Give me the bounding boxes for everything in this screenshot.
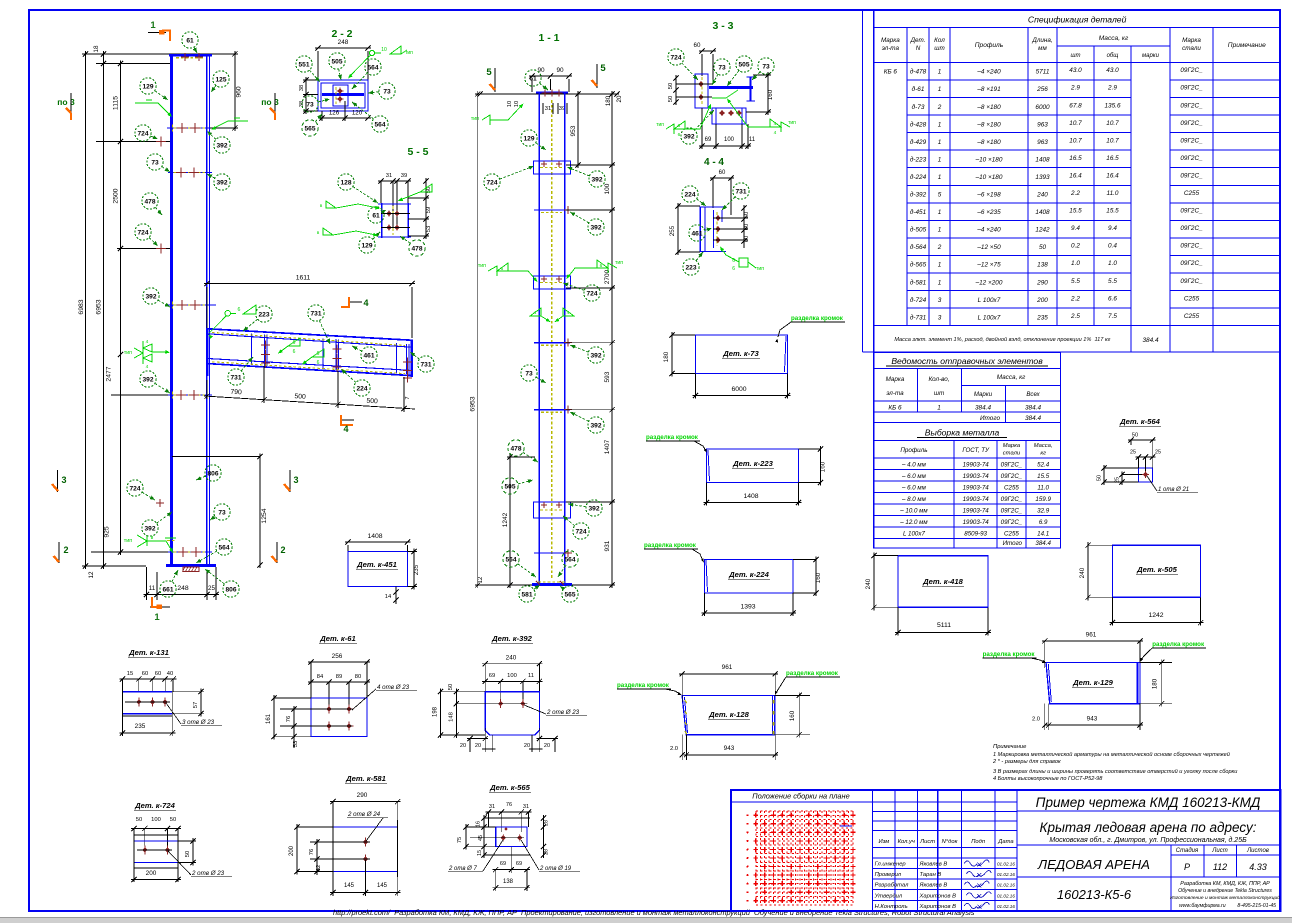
callout 73 bbox=[162, 167, 170, 172]
svg-text:2 отв Ø 24: 2 отв Ø 24 bbox=[347, 811, 381, 818]
svg-text:160: 160 bbox=[820, 461, 827, 472]
svg-text:–12 ×200: –12 ×200 bbox=[975, 279, 1003, 286]
svg-text:76: 76 bbox=[506, 802, 512, 808]
svg-text:129: 129 bbox=[361, 242, 372, 249]
section mark 5 left bbox=[494, 68, 496, 92]
svg-text:по 3: по 3 bbox=[57, 97, 75, 107]
detail k-581 plate bbox=[333, 826, 398, 828]
svg-text:1393: 1393 bbox=[740, 604, 755, 611]
beam end plates bbox=[207, 328, 209, 376]
svg-text:Р: Р bbox=[1184, 862, 1190, 872]
svg-text:1: 1 bbox=[938, 262, 942, 269]
svg-text:581: 581 bbox=[521, 591, 532, 598]
svg-text:180: 180 bbox=[663, 351, 670, 362]
section 2-2 dim 248 bbox=[315, 47, 371, 49]
left column flange welds olive bbox=[172, 125, 174, 132]
svg-text:724: 724 bbox=[486, 179, 497, 186]
svg-text:10.7: 10.7 bbox=[1069, 120, 1082, 127]
svg-text:разделка кромок: разделка кромок bbox=[646, 434, 699, 441]
svg-text:09Г2С_: 09Г2С_ bbox=[1001, 473, 1023, 480]
svg-text:разделка кромок: разделка кромок bbox=[791, 315, 844, 322]
svg-text:09Г2С_: 09Г2С_ bbox=[1180, 208, 1203, 215]
svg-text:2.9: 2.9 bbox=[1070, 85, 1080, 92]
svg-text:69: 69 bbox=[705, 137, 712, 143]
bottom gray strip bbox=[0, 918, 1292, 923]
svg-text:1.0: 1.0 bbox=[1071, 260, 1080, 267]
svg-text:59: 59 bbox=[426, 207, 432, 213]
callout 73 mid bbox=[536, 377, 546, 383]
detail k-565 right dims 28 28 bbox=[543, 815, 545, 858]
callout 565 s2 dashed bbox=[315, 114, 322, 122]
svg-text:125: 125 bbox=[215, 76, 226, 83]
svg-text:806: 806 bbox=[225, 586, 236, 593]
svg-text:– 6.0 мм: – 6.0 мм bbox=[901, 484, 927, 491]
svg-text:09Г2С_: 09Г2С_ bbox=[1001, 507, 1023, 514]
section 3-3 left dims 50 50 bbox=[675, 75, 677, 105]
svg-text:–10 ×180: –10 ×180 bbox=[975, 174, 1003, 181]
detail k-565 dim 138 bbox=[493, 887, 530, 889]
svg-text:1: 1 bbox=[937, 405, 941, 412]
column 1-1 stiffener rows bbox=[534, 209, 570, 211]
svg-text:2.9: 2.9 bbox=[1107, 85, 1117, 92]
beam internal verticals bbox=[251, 334, 253, 365]
svg-text:11.0: 11.0 bbox=[1107, 190, 1119, 197]
green stiffener mark top left bbox=[135, 103, 170, 115]
section 5-5 right dims 50 59 53 bbox=[425, 178, 427, 239]
svg-text:392: 392 bbox=[590, 224, 601, 231]
svg-text:180: 180 bbox=[605, 95, 612, 106]
svg-text:Марка: Марка bbox=[1182, 37, 1201, 44]
svg-text:200: 200 bbox=[146, 870, 157, 877]
svg-text:01.02.16: 01.02.16 bbox=[997, 883, 1015, 888]
svg-text:–8 ×180: –8 ×180 bbox=[976, 104, 1001, 111]
svg-text:эл-та: эл-та bbox=[886, 390, 904, 397]
callout 61 mid bbox=[539, 83, 548, 90]
callout 125 bbox=[211, 85, 216, 92]
svg-text:1 - 1: 1 - 1 bbox=[538, 32, 559, 44]
callout 392 mid a bbox=[567, 167, 589, 176]
svg-text:Кол.уч: Кол.уч bbox=[898, 839, 915, 845]
weld mark 6 beam top bbox=[225, 311, 231, 317]
svg-text:960: 960 bbox=[236, 86, 243, 98]
svg-text:Итого: Итого bbox=[1003, 540, 1023, 547]
svg-text:д-724: д-724 bbox=[910, 296, 927, 304]
svg-text:Обучение и внедрение Tekla St: Обучение и внедрение Tekla Structures bbox=[1178, 888, 1272, 894]
callout 73 s3 b bbox=[752, 72, 760, 80]
svg-text:Дет. к-724: Дет. к-724 bbox=[134, 801, 175, 810]
svg-text:09Г2С_: 09Г2С_ bbox=[1180, 243, 1203, 250]
svg-text:235: 235 bbox=[135, 723, 146, 730]
svg-text:– 12.0 мм: – 12.0 мм bbox=[899, 519, 928, 526]
svg-text:100: 100 bbox=[507, 673, 517, 679]
weld 4 4 mid bbox=[530, 308, 541, 316]
svg-text:3: 3 bbox=[938, 297, 942, 304]
svg-text:478: 478 bbox=[144, 198, 155, 205]
svg-text:Дет. к-581: Дет. к-581 bbox=[345, 774, 386, 783]
svg-text:www.баумфирма.ru: www.баумфирма.ru bbox=[1179, 903, 1226, 909]
svg-text:0.2: 0.2 bbox=[1071, 243, 1080, 250]
svg-text:разделка кромок: разделка кромок bbox=[1152, 641, 1205, 648]
svg-text:Лист: Лист bbox=[1211, 848, 1227, 854]
callout 128 s5 bbox=[353, 186, 378, 203]
svg-text:1: 1 bbox=[938, 174, 942, 181]
svg-text:разделка кромок: разделка кромок bbox=[786, 670, 839, 677]
svg-text:32.9: 32.9 bbox=[1037, 507, 1050, 514]
svg-text:–12 ×75: –12 ×75 bbox=[976, 262, 1001, 269]
svg-text:16.5: 16.5 bbox=[1106, 155, 1119, 162]
right dim 960 of top panel bbox=[234, 51, 236, 131]
detail k-131 dim 235 bbox=[119, 732, 175, 734]
svg-text:20: 20 bbox=[544, 743, 550, 749]
svg-text:12: 12 bbox=[88, 571, 95, 578]
svg-text:73: 73 bbox=[525, 370, 533, 377]
svg-text:724: 724 bbox=[670, 54, 681, 61]
svg-text:д-61: д-61 bbox=[912, 85, 925, 93]
detail k-451 dim 1408 bbox=[345, 541, 411, 543]
callout 478 mid dashed bbox=[523, 452, 538, 462]
svg-text:шт: шт bbox=[1071, 53, 1081, 59]
svg-text:09Г2С_: 09Г2С_ bbox=[1180, 225, 1203, 232]
svg-text:60: 60 bbox=[155, 671, 161, 677]
detail k-418 plate bbox=[898, 556, 988, 608]
svg-text:1: 1 bbox=[938, 156, 942, 163]
svg-text:19903-74: 19903-74 bbox=[963, 496, 990, 503]
callout 478 bbox=[155, 207, 162, 215]
svg-text:Изм: Изм bbox=[878, 839, 889, 845]
svg-text:392: 392 bbox=[144, 525, 155, 532]
vedomost rows bbox=[874, 411, 1061, 413]
section mark 2 right bbox=[276, 542, 278, 563]
svg-text:8509-93: 8509-93 bbox=[964, 530, 987, 537]
spec table header lines bbox=[874, 61, 1281, 63]
callout 392 c bbox=[158, 300, 170, 307]
svg-text:2700: 2700 bbox=[604, 269, 611, 284]
svg-text:11.0: 11.0 bbox=[1037, 484, 1049, 491]
svg-text:д-564: д-564 bbox=[910, 243, 927, 251]
svg-text:724: 724 bbox=[129, 485, 140, 492]
svg-text:10.7: 10.7 bbox=[1106, 137, 1119, 144]
stamp signature grid bbox=[872, 790, 874, 911]
left elevation dim 6983 bbox=[85, 51, 87, 569]
svg-text:Масса, кг: Масса, кг bbox=[997, 374, 1026, 381]
svg-text:–6 ×235: –6 ×235 bbox=[976, 209, 1001, 216]
section 3-3 beam H bbox=[709, 86, 753, 89]
svg-text:160: 160 bbox=[767, 89, 774, 100]
svg-text:09Г2С_: 09Г2С_ bbox=[1180, 102, 1203, 109]
svg-text:1: 1 bbox=[154, 612, 160, 623]
detail k-581 dims 145 145 bbox=[330, 892, 401, 894]
detail k-73 dim 180 bbox=[671, 332, 673, 377]
svg-text:6953: 6953 bbox=[96, 299, 103, 314]
svg-text:392: 392 bbox=[588, 505, 599, 512]
section mark 4 top bbox=[349, 301, 362, 303]
svg-text:6983: 6983 bbox=[78, 299, 85, 314]
callout 73 s2 a bbox=[368, 92, 379, 93]
beam olive dashes bbox=[212, 332, 405, 345]
svg-text:4 отв Ø 23: 4 отв Ø 23 bbox=[377, 684, 410, 691]
svg-text:6: 6 bbox=[293, 340, 296, 346]
svg-text:1: 1 bbox=[938, 139, 942, 146]
svg-text:Дет. к-418: Дет. к-418 bbox=[922, 577, 963, 586]
svg-text:разделка кромок: разделка кромок bbox=[983, 651, 1036, 658]
svg-text:09Г2С_: 09Г2С_ bbox=[1180, 85, 1203, 92]
section 3-3 left plate bbox=[695, 74, 708, 108]
stamp plan cell header bbox=[731, 801, 873, 803]
svg-text:50: 50 bbox=[668, 96, 674, 102]
svg-text:161: 161 bbox=[266, 713, 272, 724]
svg-text:С255: С255 bbox=[1184, 313, 1200, 320]
svg-text:6: 6 bbox=[317, 360, 320, 366]
stamp signatures scribbles bbox=[964, 860, 989, 866]
svg-text:100: 100 bbox=[151, 817, 161, 823]
svg-text:Длина,: Длина, bbox=[1031, 37, 1052, 44]
svg-text:50: 50 bbox=[170, 817, 176, 823]
svg-text:L 100х7: L 100х7 bbox=[978, 314, 1001, 321]
detail k-451 plate bbox=[348, 552, 408, 587]
svg-text:–12 ×50: –12 ×50 bbox=[976, 244, 1001, 251]
callout 61 s5 bbox=[383, 210, 386, 211]
svg-text:43.0: 43.0 bbox=[1069, 67, 1082, 74]
svg-text:16.5: 16.5 bbox=[1069, 155, 1082, 162]
svg-text:2 отв Ø 7: 2 отв Ø 7 bbox=[448, 866, 477, 872]
svg-text:75: 75 bbox=[457, 837, 463, 843]
svg-text:01.02.16: 01.02.16 bbox=[997, 893, 1015, 898]
left elevation segment dims 1115 2500 2477 925 bbox=[120, 61, 122, 556]
vyborka table bbox=[874, 422, 1061, 548]
callout 564 base bbox=[196, 551, 217, 563]
svg-text:марки: марки bbox=[1142, 53, 1160, 59]
svg-text:60: 60 bbox=[719, 170, 726, 176]
svg-text:Лист: Лист bbox=[919, 839, 935, 845]
svg-text:тип: тип bbox=[124, 350, 132, 356]
svg-text:2: 2 bbox=[937, 244, 942, 251]
svg-text:Харитонов В: Харитонов В bbox=[919, 893, 957, 899]
detail k-73 dim 6000 bbox=[693, 395, 791, 397]
svg-text:392: 392 bbox=[145, 293, 156, 300]
svg-text:73: 73 bbox=[151, 159, 159, 166]
svg-text:223: 223 bbox=[685, 264, 696, 271]
svg-text:50: 50 bbox=[185, 851, 191, 857]
svg-text:57: 57 bbox=[193, 702, 199, 708]
svg-text:14.1: 14.1 bbox=[1037, 530, 1049, 537]
svg-text:15: 15 bbox=[127, 671, 133, 677]
svg-text:925: 925 bbox=[104, 526, 111, 538]
svg-text:стали: стали bbox=[1182, 45, 1201, 52]
plan grid blue tick bbox=[840, 825, 852, 827]
svg-text:60: 60 bbox=[142, 671, 148, 677]
detail k-392 bolts bbox=[498, 701, 503, 706]
svg-text:5 - 5: 5 - 5 bbox=[407, 146, 428, 158]
svg-text:73: 73 bbox=[218, 509, 226, 516]
svg-text:–8 ×191: –8 ×191 bbox=[976, 86, 1001, 93]
vedomost table bbox=[874, 352, 1061, 422]
detail k-61 plate bbox=[311, 698, 367, 737]
callout 392 mid c bbox=[570, 345, 588, 352]
left elevation dim 6953 bbox=[103, 51, 105, 569]
svg-text:384.4: 384.4 bbox=[1035, 540, 1051, 547]
svg-text:С255: С255 bbox=[1004, 530, 1019, 537]
svg-text:963: 963 bbox=[1037, 121, 1048, 128]
detail k-224 dim 1393 bbox=[702, 612, 797, 614]
svg-text:Ведомость отправочных элементо: Ведомость отправочных элементов bbox=[891, 356, 1043, 366]
beam truss body bbox=[208, 329, 413, 341]
callout 724 b bbox=[149, 238, 158, 246]
green marks small left column bbox=[165, 537, 176, 539]
callout 806 base bbox=[205, 569, 225, 584]
svg-text:564: 564 bbox=[367, 64, 378, 71]
svg-text:6: 6 bbox=[678, 123, 681, 129]
left elevation callout 61 bbox=[194, 47, 197, 53]
callout 73 s3 a bbox=[712, 74, 718, 85]
callout 223 s4 bbox=[696, 252, 703, 261]
svg-text:500: 500 bbox=[366, 398, 378, 406]
svg-text:73: 73 bbox=[383, 88, 391, 95]
detail k-128 plate bbox=[682, 695, 775, 734]
svg-text:126: 126 bbox=[329, 110, 340, 117]
callout 461 s4 bbox=[705, 228, 712, 230]
column 1-1 top cap bbox=[536, 91, 568, 93]
detail k-505 dim 1242 bbox=[1110, 622, 1204, 624]
svg-text:20: 20 bbox=[616, 95, 623, 102]
svg-text:д-392: д-392 bbox=[910, 191, 927, 199]
svg-text:N°док: N°док bbox=[942, 839, 958, 845]
svg-text:2.2: 2.2 bbox=[1070, 295, 1080, 302]
svg-text:1.0: 1.0 bbox=[1108, 260, 1117, 267]
svg-text:235: 235 bbox=[1036, 314, 1048, 321]
callout 724 top bbox=[151, 136, 158, 139]
section 3-3 dim 60 bbox=[699, 50, 716, 52]
svg-text:60: 60 bbox=[694, 42, 701, 49]
detail k-565 dims 31 76 31 bbox=[486, 811, 532, 813]
svg-text:д-428: д-428 bbox=[910, 120, 927, 128]
svg-text:7: 7 bbox=[405, 396, 411, 399]
detail k-505 dim 240 bbox=[1087, 542, 1089, 600]
weld b flags s5 bbox=[326, 201, 336, 208]
detail k-129 dim 180 right bbox=[1161, 659, 1163, 706]
svg-text:4: 4 bbox=[146, 364, 149, 370]
svg-text:248: 248 bbox=[177, 585, 189, 592]
svg-text:45: 45 bbox=[478, 835, 484, 841]
svg-text:д-224: д-224 bbox=[910, 173, 927, 181]
green stiffener mark top right bbox=[214, 121, 248, 128]
svg-text:Изготовление и монтаж металлок: Изготовление и монтаж металлоконструкций bbox=[1170, 894, 1280, 901]
plan red grid bbox=[755, 811, 757, 905]
svg-text:1407: 1407 bbox=[604, 439, 611, 454]
svg-text:60: 60 bbox=[744, 236, 750, 242]
svg-text:60: 60 bbox=[744, 224, 750, 230]
svg-text:L 100х7: L 100х7 bbox=[903, 530, 925, 537]
callout 392 a bbox=[207, 131, 216, 139]
detail k-61 bolts bbox=[326, 706, 331, 711]
detail k-564 dim 25 left bbox=[1121, 472, 1123, 486]
svg-text:10: 10 bbox=[514, 101, 520, 107]
callout 73 s2 b bbox=[318, 99, 330, 102]
svg-text:90: 90 bbox=[537, 67, 545, 74]
svg-text:Выборка металла: Выборка металла bbox=[925, 428, 1000, 438]
svg-text:8-495-215-01-45: 8-495-215-01-45 bbox=[1237, 903, 1276, 909]
svg-text:10: 10 bbox=[381, 47, 387, 53]
svg-text:09Г2С_: 09Г2С_ bbox=[1180, 278, 1203, 285]
column 1-1 body bbox=[538, 93, 540, 586]
vedomost header bbox=[874, 400, 1061, 402]
svg-text:2 отв Ø 19: 2 отв Ø 19 bbox=[539, 866, 572, 872]
svg-text:д-223: д-223 bbox=[910, 155, 927, 163]
svg-text:6: 6 bbox=[238, 307, 241, 313]
svg-text:290: 290 bbox=[357, 792, 368, 799]
svg-text:КБ 6: КБ 6 bbox=[888, 405, 902, 412]
svg-text:09Г2С_: 09Г2С_ bbox=[1001, 496, 1023, 503]
svg-text:Дет. к-565: Дет. к-565 bbox=[489, 783, 530, 792]
svg-text:эл-та: эл-та bbox=[882, 45, 900, 52]
svg-text:5111: 5111 bbox=[937, 622, 951, 629]
svg-text:Дет. к-564: Дет. к-564 bbox=[1119, 417, 1160, 426]
svg-text:961: 961 bbox=[722, 664, 733, 671]
detail k-724 dim 50 right bbox=[192, 838, 194, 865]
svg-text:724: 724 bbox=[137, 229, 148, 236]
dim 953 right inner bbox=[577, 91, 579, 168]
svg-text:159.9: 159.9 bbox=[1035, 496, 1051, 503]
svg-text:2500: 2500 bbox=[113, 188, 120, 203]
svg-text:1254: 1254 bbox=[261, 508, 268, 523]
svg-text:240: 240 bbox=[865, 578, 872, 589]
svg-text:505: 505 bbox=[738, 61, 749, 68]
svg-text:31: 31 bbox=[545, 106, 551, 112]
svg-text:129: 129 bbox=[142, 83, 153, 90]
svg-text:392: 392 bbox=[590, 352, 601, 359]
detail k-128 dim 160 right bbox=[798, 692, 800, 737]
svg-text:67.8: 67.8 bbox=[1069, 102, 1082, 109]
svg-text:Дет. к-73: Дет. к-73 bbox=[722, 349, 759, 358]
svg-text:461: 461 bbox=[691, 230, 702, 237]
detail k-724 plate bbox=[134, 840, 178, 842]
svg-text:Дата: Дата bbox=[997, 839, 1014, 845]
svg-text:тип: тип bbox=[615, 260, 623, 266]
svg-text:в: в bbox=[320, 204, 323, 209]
left column base plate bbox=[166, 564, 216, 567]
svg-text:50: 50 bbox=[1132, 433, 1138, 439]
svg-text:Дет. к-61: Дет. к-61 bbox=[319, 634, 355, 643]
callout 731 right bbox=[410, 352, 419, 359]
left column top cap bbox=[169, 54, 212, 57]
svg-text:2: 2 bbox=[280, 545, 285, 555]
stamp stadia cells bbox=[1170, 845, 1172, 911]
svg-text:145: 145 bbox=[344, 883, 355, 889]
detail k-129 dim 961 bbox=[1042, 640, 1143, 642]
detail k-61 dim 256 bbox=[308, 661, 370, 663]
svg-text:1 отв Ø 21: 1 отв Ø 21 bbox=[1158, 487, 1189, 493]
left column flange thick bbox=[170, 54, 173, 566]
section 2-2 left dims 38 38 bbox=[305, 77, 307, 114]
detail k-128 dim 961 bbox=[679, 673, 778, 675]
callout 478 s5 dashed bbox=[400, 236, 410, 243]
svg-text:Кол: Кол bbox=[934, 37, 945, 44]
svg-text:2.5: 2.5 bbox=[1070, 313, 1080, 320]
callout 564 s2 a bbox=[352, 73, 367, 89]
svg-text:505: 505 bbox=[331, 58, 342, 65]
svg-text:240: 240 bbox=[506, 655, 517, 662]
left column web lines bbox=[206, 55, 208, 565]
svg-text:724: 724 bbox=[575, 528, 586, 535]
svg-text:Московская обл., г. Дмитров, у: Московская обл., г. Дмитров, ул. Професс… bbox=[1049, 836, 1247, 844]
svg-text:Разработал: Разработал bbox=[875, 883, 910, 889]
svg-text:С255: С255 bbox=[1004, 484, 1019, 491]
svg-text:112: 112 bbox=[1213, 862, 1227, 872]
svg-text:14: 14 bbox=[385, 594, 392, 600]
svg-text:Дет.: Дет. bbox=[910, 37, 926, 44]
svg-text:2 отв Ø 23: 2 отв Ø 23 bbox=[546, 709, 580, 716]
svg-text:Яковлев В: Яковлев В bbox=[919, 883, 948, 889]
svg-text:661: 661 bbox=[162, 586, 173, 593]
